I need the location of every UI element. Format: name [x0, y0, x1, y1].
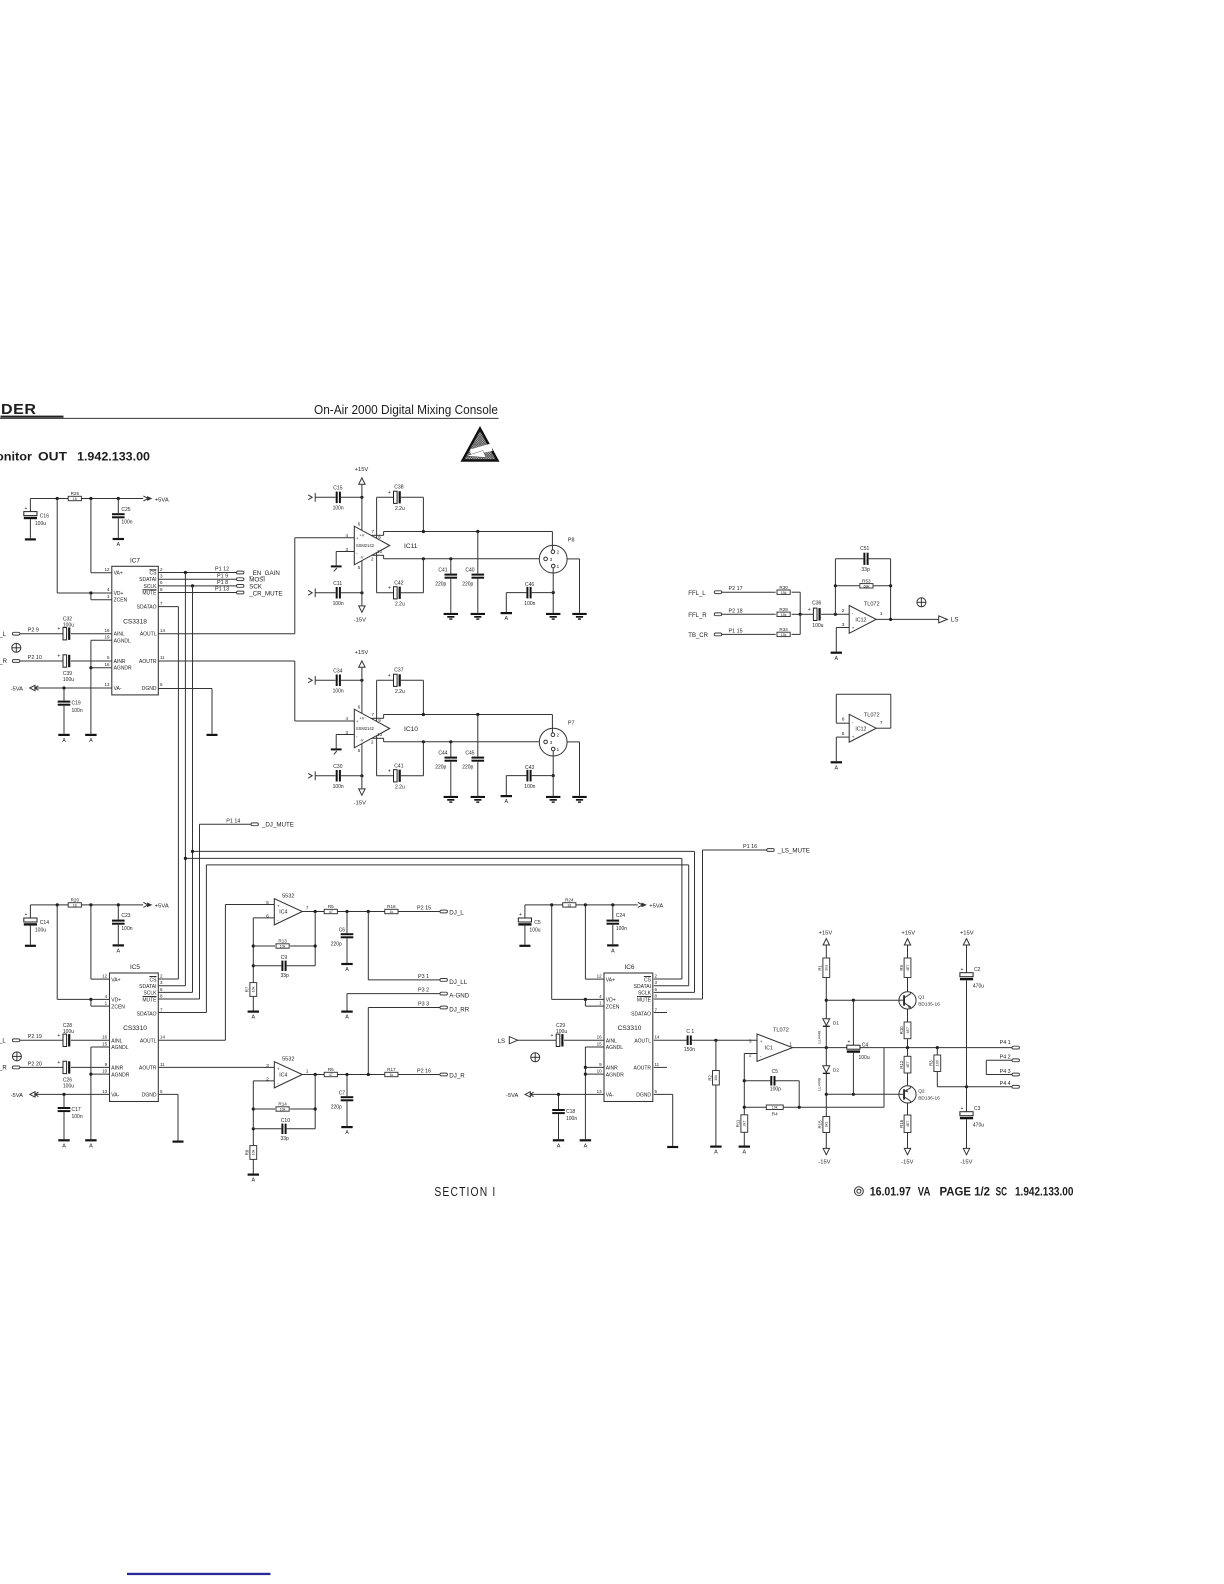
wire DGND	[654, 1093, 673, 1095]
wire -in	[336, 734, 354, 736]
wire VA+ drop	[90, 905, 92, 979]
wire AGNDR	[91, 667, 112, 669]
wire	[579, 742, 581, 796]
svg-text:A: A	[251, 1015, 255, 1021]
svg-text:220p: 220p	[331, 1104, 342, 1110]
junction	[252, 1127, 255, 1130]
svg-text:100u: 100u	[35, 928, 46, 934]
connector P3 pin 3	[418, 1002, 447, 1009]
wire bus SCLK vert	[192, 586, 194, 993]
svg-text:3k3: 3k3	[825, 965, 829, 971]
svg-text:+: +	[852, 625, 855, 630]
svg-text:SDATAO: SDATAO	[137, 605, 157, 611]
resistor R16	[899, 1115, 911, 1133]
svg-text:AGNDL: AGNDL	[114, 638, 131, 644]
wire bus CS horizontal	[185, 857, 682, 859]
svg-text:+: +	[388, 768, 391, 774]
svg-text:VA+: VA+	[114, 571, 123, 577]
wire C17 drop	[63, 1094, 65, 1107]
wire AOUTL	[158, 633, 294, 635]
wire	[505, 593, 507, 612]
resistor R7	[245, 983, 257, 997]
wire C4 top	[852, 1000, 854, 1045]
svg-text:ZCEN: ZCEN	[111, 1004, 125, 1010]
svg-text:AOUTL: AOUTL	[634, 1038, 651, 1044]
svg-text:R10: R10	[899, 1026, 904, 1035]
wire VD+ drop	[56, 499, 58, 594]
svg-text:CS3310: CS3310	[618, 1025, 642, 1032]
svg-text:A: A	[611, 949, 615, 955]
junction	[889, 584, 892, 587]
wire fb right	[314, 1075, 316, 1129]
junction	[825, 1093, 828, 1096]
svg-text:16: 16	[104, 662, 110, 667]
junction	[367, 910, 370, 913]
svg-text:100n: 100n	[333, 784, 344, 790]
capacitor C11	[336, 587, 341, 599]
wire R34 rise	[799, 614, 801, 634]
wire to -in	[821, 613, 849, 615]
wire out	[302, 911, 324, 913]
junction	[117, 903, 120, 906]
resistor R30	[777, 585, 790, 595]
svg-text:P1 15: P1 15	[729, 628, 743, 634]
svg-text:-15V: -15V	[818, 1160, 830, 1166]
wire out+	[384, 531, 553, 533]
wire	[315, 679, 335, 681]
wire out-	[384, 741, 544, 743]
svg-text:100n: 100n	[524, 601, 535, 607]
wire AGNDL	[91, 1046, 110, 1048]
resistor R14	[276, 1102, 289, 1112]
wire	[450, 579, 452, 613]
svg-text:LL4448: LL4448	[817, 1078, 821, 1091]
wire loop bottom right	[422, 559, 424, 593]
wire to IC5 CS	[158, 978, 178, 980]
transistor Q1 BD135-16	[899, 992, 940, 1009]
power +15V	[901, 930, 915, 936]
wire to R3	[936, 1048, 938, 1055]
wire AINL	[71, 633, 112, 635]
junction	[360, 496, 363, 499]
wire sum node	[800, 613, 813, 615]
svg-text:47: 47	[329, 1073, 333, 1077]
power +15V	[960, 930, 974, 936]
wire Q1 base	[826, 999, 899, 1001]
svg-text:A: A	[89, 738, 93, 744]
power -5VA	[11, 685, 39, 692]
svg-text:100u: 100u	[859, 1055, 870, 1061]
wire	[315, 775, 335, 777]
svg-text:IC10: IC10	[404, 726, 418, 733]
bottom blue mark	[127, 1573, 271, 1575]
svg-text:R2: R2	[707, 1074, 712, 1080]
wire VA+	[91, 978, 110, 980]
svg-text:A: A	[251, 1178, 255, 1184]
ground	[444, 796, 458, 803]
svg-text:FFL_L: FFL_L	[688, 591, 706, 597]
svg-text:-15V: -15V	[354, 800, 366, 806]
wire P4-2	[986, 1059, 1012, 1061]
svg-text:CS3318: CS3318	[123, 619, 147, 626]
wire AGND drop	[90, 1047, 92, 1139]
svg-text:100n: 100n	[566, 1116, 577, 1122]
svg-text:1: 1	[306, 1069, 309, 1075]
svg-text:2: 2	[842, 608, 845, 614]
wire AINR	[71, 660, 112, 662]
wire fb right	[314, 912, 316, 966]
wire VA+	[585, 978, 604, 980]
line-driver IC10 SSM2142	[345, 705, 418, 753]
junction	[557, 1093, 560, 1096]
svg-text:+: +	[519, 912, 522, 918]
capacitor C17	[58, 1107, 71, 1112]
capacitor C30	[336, 770, 341, 782]
wire R10 down	[907, 1039, 909, 1048]
svg-text:A: A	[584, 1143, 588, 1149]
ground	[667, 1146, 678, 1148]
wire	[524, 926, 526, 945]
wire C6 drop	[346, 912, 348, 934]
svg-text:SSM2142: SSM2142	[356, 726, 375, 731]
svg-text:7: 7	[880, 720, 883, 726]
wire out 2	[337, 911, 384, 913]
wire SDATAI	[158, 578, 236, 580]
resistor R10	[899, 1022, 911, 1039]
svg-text:4E7: 4E7	[906, 1027, 910, 1033]
junction	[825, 999, 828, 1002]
wire	[117, 518, 119, 538]
wire -in	[744, 1053, 757, 1055]
svg-text:VD+: VD+	[606, 998, 616, 1004]
svg-text:AINL: AINL	[111, 1038, 122, 1044]
capacitor C46	[526, 587, 531, 599]
capacitor C18	[552, 1109, 565, 1114]
junction	[714, 1039, 717, 1042]
wire out+ jog	[371, 717, 383, 719]
junction	[360, 679, 363, 682]
wire	[335, 552, 337, 566]
svg-text:R16: R16	[899, 1119, 904, 1128]
wire C51 right	[869, 558, 891, 560]
svg-text:SCK: SCK	[249, 583, 263, 590]
svg-text:AOUTL: AOUTL	[140, 632, 157, 638]
svg-text:100u: 100u	[35, 521, 46, 527]
resistor R8	[245, 1146, 257, 1160]
wire DGND drop	[672, 1094, 674, 1146]
resistor R15	[818, 1117, 830, 1133]
svg-text:SSM2142: SSM2142	[356, 543, 375, 548]
svg-text:A: A	[345, 967, 349, 973]
ground	[471, 613, 485, 620]
svg-text:+: +	[24, 506, 27, 512]
connector P4 pin 2	[1000, 1055, 1020, 1062]
svg-text:R4: R4	[772, 1111, 778, 1116]
svg-text:DJ_RR: DJ_RR	[449, 1007, 469, 1014]
wire out 2	[337, 1074, 384, 1076]
svg-text:R_R: R_R	[0, 659, 8, 665]
ground	[331, 565, 342, 571]
svg-text:AOUTR: AOUTR	[139, 1066, 157, 1072]
wire C4 bottom	[852, 1053, 854, 1095]
svg-text:Q1: Q1	[918, 994, 925, 1000]
wire AGNDL	[585, 1046, 604, 1048]
svg-text:P2 18: P2 18	[729, 608, 743, 614]
wire R1-D1	[825, 978, 827, 1019]
svg-text:VA-: VA-	[111, 1093, 119, 1099]
svg-text:-5VA: -5VA	[11, 686, 24, 692]
net FFL_R	[688, 608, 742, 619]
svg-text:A: A	[714, 1150, 718, 1156]
connector P7	[539, 720, 574, 756]
svg-text:100n: 100n	[333, 506, 344, 512]
net LS input	[498, 1037, 518, 1046]
ground A	[710, 1146, 721, 1156]
wire V- stem	[361, 743, 363, 788]
svg-text:100: 100	[936, 1060, 940, 1066]
wire C46	[506, 592, 526, 594]
node -15V rail (IC10)	[308, 771, 315, 780]
op-amp IC12 TL072	[842, 602, 883, 634]
wire VD+	[57, 998, 109, 1000]
svg-text:C9: C9	[281, 955, 288, 961]
svg-text:14: 14	[655, 1035, 661, 1040]
svg-text:+: +	[852, 734, 855, 739]
wire loop top left	[376, 680, 378, 721]
junction	[56, 903, 59, 906]
capacitor C39	[57, 654, 70, 668]
wire shell	[552, 751, 554, 776]
svg-text:P1 16: P1 16	[743, 844, 757, 850]
junction	[89, 998, 92, 1001]
svg-text:1.942.133.00: 1.942.133.00	[1015, 1186, 1073, 1198]
wire to IC5 SCLK	[158, 991, 192, 993]
wire ZCEN drop	[90, 999, 92, 1006]
wire -in	[253, 1080, 274, 1082]
wire	[505, 776, 507, 795]
svg-text:C4: C4	[862, 1042, 869, 1048]
svg-text:FFL_R: FFL_R	[688, 613, 707, 619]
junction	[360, 591, 363, 594]
svg-text:5: 5	[842, 731, 845, 737]
capacitor C6	[341, 933, 354, 938]
svg-text:100n: 100n	[524, 784, 535, 790]
svg-text:C3: C3	[974, 1106, 981, 1112]
wire to IC6 CS	[654, 978, 682, 980]
connector P3 pin 1	[418, 974, 447, 981]
ground A	[58, 1139, 69, 1149]
svg-text:10: 10	[597, 1069, 603, 1074]
node +15V rail (IC11)	[308, 493, 315, 502]
svg-text:10k: 10k	[252, 1149, 256, 1155]
wire SCLK	[158, 585, 236, 587]
wire	[335, 735, 337, 749]
svg-text:16: 16	[597, 1035, 603, 1040]
junction	[889, 618, 892, 621]
svg-text:R34: R34	[779, 627, 788, 632]
wire C44 drop	[450, 742, 452, 757]
svg-text:A: A	[116, 949, 120, 955]
wire VD+	[57, 592, 112, 594]
capacitor C10	[281, 1124, 286, 1134]
svg-text:R24: R24	[565, 898, 574, 903]
svg-text:220p: 220p	[435, 765, 446, 771]
svg-text:MUTE: MUTE	[142, 591, 157, 597]
svg-text:68k: 68k	[864, 584, 870, 588]
svg-text:IC4: IC4	[279, 1073, 287, 1079]
svg-text:TB_CR: TB_CR	[688, 633, 708, 639]
wire pin1 out	[567, 741, 579, 743]
junction	[62, 1093, 65, 1096]
op-amp IC4 (DJ_L)	[266, 894, 309, 925]
node +5VA rail (IC7)	[30, 498, 143, 500]
svg-text:C17: C17	[72, 1107, 81, 1113]
wire VD+	[552, 998, 604, 1000]
wire ZCEN	[91, 599, 112, 601]
svg-text:+V: +V	[359, 533, 364, 538]
net _DJ_MUTE	[226, 818, 294, 828]
svg-text:10k: 10k	[772, 1106, 778, 1110]
svg-text:VA-: VA-	[114, 686, 122, 692]
wire D2-R15	[825, 1074, 827, 1117]
svg-text:ZCEN: ZCEN	[114, 598, 128, 604]
resistor R17	[385, 1067, 398, 1077]
wire SDATAO stub	[654, 1012, 667, 1014]
wire FFL_R	[722, 613, 776, 615]
node crosshair	[12, 643, 21, 652]
text footer revision	[855, 1186, 1074, 1198]
wire +in	[836, 736, 849, 738]
svg-text:+: +	[356, 719, 359, 724]
resistor R2	[707, 1071, 719, 1086]
diode D1 LL4448	[817, 1019, 839, 1044]
ground A	[248, 1174, 259, 1184]
svg-text:C44: C44	[438, 751, 447, 757]
capacitor C38	[377, 496, 394, 498]
wire VA+	[91, 572, 112, 574]
junction	[89, 666, 92, 669]
power -5VA	[11, 1092, 39, 1099]
wire VD+ drop	[56, 905, 58, 1000]
ground	[25, 945, 36, 947]
capacitor C44	[445, 757, 458, 762]
wire bus SDATA horizontal	[206, 864, 688, 866]
svg-text:100u: 100u	[63, 1029, 74, 1035]
wire AGNDR	[585, 1073, 604, 1075]
wire LS_MUTE	[703, 849, 767, 851]
net LS output	[939, 616, 959, 624]
svg-text:+5VA: +5VA	[649, 904, 663, 910]
svg-text:VD+: VD+	[114, 591, 124, 597]
connector P2 pin 10	[12, 655, 41, 662]
svg-text:C37: C37	[394, 667, 403, 673]
svg-text:P4 1: P4 1	[1000, 1040, 1011, 1046]
svg-text:C25: C25	[121, 507, 130, 513]
svg-text:TL072: TL072	[773, 1027, 789, 1033]
svg-text:-15V: -15V	[960, 1160, 972, 1166]
resistor R9	[899, 958, 911, 978]
ground	[25, 538, 36, 540]
wire	[612, 925, 614, 945]
junction	[252, 944, 255, 947]
wire out+ jog	[371, 534, 383, 536]
svg-text:SCLK: SCLK	[143, 991, 157, 997]
svg-text:15: 15	[597, 1041, 603, 1046]
svg-text:AINL: AINL	[114, 632, 125, 638]
svg-text:1.942.133.00: 1.942.133.00	[77, 449, 150, 463]
capacitor C41	[445, 574, 458, 579]
resistor R1	[818, 958, 830, 978]
svg-text:10: 10	[377, 549, 383, 554]
svg-text:P1 9: P1 9	[217, 573, 228, 579]
svg-text:4E7: 4E7	[906, 1121, 910, 1127]
svg-text:+: +	[356, 536, 359, 541]
wire	[63, 1112, 65, 1139]
ground	[207, 734, 218, 736]
ground A	[248, 1011, 259, 1021]
resistor R24	[563, 898, 576, 908]
svg-text:+: +	[961, 967, 964, 973]
wire R4 left	[744, 1106, 766, 1108]
wire out-	[384, 558, 544, 560]
svg-text:+15V: +15V	[819, 930, 833, 936]
svg-text:-V: -V	[359, 737, 363, 742]
svg-text:16: 16	[73, 904, 77, 908]
connector P2 pin 19	[12, 1034, 41, 1042]
node -15V rail (IC11)	[308, 588, 315, 597]
wire C2-C3	[966, 980, 968, 1087]
svg-text:100n: 100n	[121, 520, 132, 526]
svg-text:P7: P7	[568, 720, 575, 726]
power +15V	[355, 650, 369, 656]
svg-text:SCLK: SCLK	[638, 991, 652, 997]
svg-text:AINR: AINR	[114, 659, 126, 665]
junction	[552, 774, 555, 777]
svg-text:C29: C29	[556, 1023, 565, 1029]
wire	[552, 776, 554, 796]
svg-text:R13: R13	[278, 939, 287, 944]
ground	[572, 796, 586, 803]
svg-text:A: A	[62, 738, 66, 744]
junction	[422, 740, 425, 743]
resistor R5	[324, 904, 337, 914]
junction	[89, 497, 92, 500]
svg-text:SDATAO: SDATAO	[631, 1011, 651, 1017]
junction	[314, 1107, 317, 1110]
wire Q1-R10	[907, 1009, 909, 1022]
svg-text:5532: 5532	[282, 1057, 294, 1063]
svg-text:10: 10	[102, 1069, 108, 1074]
svg-text:4E7: 4E7	[906, 965, 910, 971]
svg-text:IC12: IC12	[855, 617, 866, 623]
capacitor C43	[526, 770, 531, 782]
svg-text:SC: SC	[996, 1186, 1007, 1198]
wire	[558, 1114, 560, 1139]
IC U IC7 CS3318	[104, 557, 165, 695]
wire P3-2	[347, 993, 440, 995]
wire C9	[253, 965, 281, 967]
svg-text:220p: 220p	[435, 582, 446, 588]
capacitor C34	[336, 675, 341, 687]
svg-text:6: 6	[266, 913, 269, 919]
capacitor C23	[112, 920, 125, 925]
wire AGND drop	[90, 640, 92, 734]
capacitor C15	[336, 492, 341, 504]
svg-text:+15V: +15V	[355, 650, 369, 656]
wire D1-D2	[825, 1027, 827, 1066]
wire loop top right	[422, 680, 424, 714]
svg-text:VA+: VA+	[111, 977, 120, 983]
